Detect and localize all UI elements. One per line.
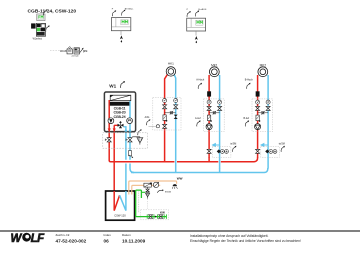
- WOLF logo: [11, 233, 46, 245]
- pipe tank loading flow red: [113, 125, 115, 211]
- svg-text:CGB-24: CGB-24: [114, 115, 126, 119]
- pipe boiler return blue: [130, 100, 134, 173]
- kw dot: [155, 216, 157, 218]
- dhw sensor: [157, 188, 164, 195]
- sensor 2 at module B: [195, 10, 199, 16]
- svg-text:Datum: Datum: [122, 233, 131, 237]
- HK1 consumer circle: [166, 67, 175, 76]
- svg-text:W1select: W1select: [33, 37, 43, 40]
- dotted drop from funnel: [147, 199, 149, 210]
- control module BM: [37, 14, 45, 21]
- heating circuit HK1 flow riser: [165, 74, 168, 161]
- svg-text:BT/eBus: BT/eBus: [125, 8, 134, 10]
- discharge valve chain: [146, 187, 150, 199]
- dirt trap funnel: [132, 137, 143, 145]
- sensor A/A1: [146, 119, 150, 125]
- restrictor on return: [129, 151, 134, 158]
- boiler 3-way valve: [118, 121, 124, 128]
- green stub to safety: [141, 191, 145, 193]
- svg-text:10.11.2009: 10.11.2009: [122, 238, 146, 243]
- HK1 pump dot: [156, 125, 159, 128]
- pipes inside boiler: [108, 100, 110, 132]
- svg-text:W1MF: W1MF: [60, 50, 68, 53]
- safety valve box: [144, 183, 152, 188]
- svg-text:MK1: MK1: [211, 63, 218, 67]
- svg-text:CGB-K20: CGB-K20: [113, 102, 127, 106]
- valve on return: [126, 138, 132, 142]
- heating flow main: [109, 160, 254, 162]
- pipe tank return blue: [125, 131, 127, 211]
- mixer module B box: [187, 18, 206, 31]
- MK2 return elbow: [264, 168, 268, 173]
- valve on flow: [105, 138, 111, 142]
- HK1 return riser: [174, 75, 176, 173]
- heat exchanger: [110, 95, 131, 100]
- svg-text:A-tief: A-tief: [195, 117, 201, 120]
- eBus sensor at module B: [187, 11, 191, 17]
- sensor 2 at module A: [121, 10, 125, 16]
- kw valve 1: [147, 214, 154, 218]
- heating return main: [131, 172, 264, 174]
- kw end tick: [165, 214, 167, 218]
- svg-text:Zeichn.-Nr.: Zeichn.-Nr.: [56, 233, 71, 237]
- kw fittings dashed box: [141, 210, 169, 220]
- sensor ts1: [232, 146, 236, 152]
- cold water group green: [136, 190, 167, 217]
- HK1 lower valve: [163, 124, 167, 128]
- MK1 flow tee: [208, 157, 210, 162]
- crossing gaps on flow main: [174, 160, 177, 163]
- svg-text:A-Hoch: A-Hoch: [196, 79, 205, 82]
- svg-text:B-eBUS: B-eBUS: [198, 9, 206, 11]
- sensor B-tief: [245, 120, 249, 126]
- svg-text:BT(W): BT(W): [165, 192, 171, 194]
- service group dashed box: [103, 133, 148, 148]
- svg-text:WW: WW: [177, 177, 183, 181]
- wire below module A: [120, 31, 122, 35]
- circulation pump: [153, 182, 159, 188]
- HK1 valve return: [174, 105, 178, 109]
- return sensor: [138, 129, 142, 135]
- boiler type list: [110, 102, 130, 119]
- tank coil blue: [120, 191, 126, 211]
- heating circuit MK1: [204, 67, 231, 169]
- svg-text:MK2: MK2: [260, 63, 267, 67]
- svg-text:LF: LF: [31, 233, 46, 245]
- svg-text:47-52-020-002: 47-52-020-002: [56, 238, 87, 243]
- HK1 bypass line: [165, 112, 176, 114]
- arrow to P=: [80, 49, 83, 53]
- flow arrows red down: [108, 128, 111, 132]
- arrow mark B: [195, 36, 198, 40]
- svg-text:P=: P=: [83, 49, 87, 53]
- boiler pump: [108, 118, 114, 124]
- svg-text:Einschlägige Regeln der Techni: Einschlägige Regeln der Technik und örtl…: [190, 239, 301, 243]
- sensor ts2: [281, 146, 285, 152]
- svg-text:ts/SM: ts/SM: [230, 143, 236, 146]
- svg-text:HK1: HK1: [168, 61, 174, 65]
- svg-text:ts/SM: ts/SM: [279, 143, 285, 146]
- dashed link: [50, 50, 59, 52]
- MK1 return tee: [219, 168, 221, 173]
- HK1 dashed box: [153, 97, 181, 130]
- svg-text:KW: KW: [160, 210, 165, 214]
- radio outdoor sensor icon: [67, 46, 72, 54]
- pipe boiler flow red left: [108, 100, 110, 161]
- dotted riser: [138, 192, 140, 214]
- HK1 bypass valve: [170, 112, 173, 114]
- svg-text:CGB-11-24, CSW-120: CGB-11-24, CSW-120: [28, 8, 77, 14]
- boiler fan: [127, 118, 133, 124]
- boiler W1 body: [104, 92, 135, 132]
- svg-text:B-Hoch: B-Hoch: [245, 79, 254, 82]
- HK1 valve flow: [163, 105, 167, 109]
- eBus sensor at module A: [112, 10, 116, 16]
- kw valve 2: [157, 214, 164, 218]
- sensor A-tief: [197, 120, 201, 126]
- svg-text:Installationsprinzip ohne Ansp: Installationsprinzip ohne Anspruch auf V…: [190, 234, 269, 238]
- return arrows blue up: [124, 128, 127, 132]
- svg-text:Index: Index: [104, 233, 112, 237]
- wire below module B: [195, 31, 197, 36]
- MK2 flow elbow: [254, 157, 258, 162]
- tank coil red: [114, 191, 119, 211]
- svg-text:06: 06: [104, 238, 110, 243]
- arrow mark A: [120, 35, 123, 39]
- svg-text:W: W: [11, 233, 23, 245]
- svg-text:B-tief: B-tief: [244, 117, 250, 120]
- sensor B-Hoch: [247, 83, 251, 89]
- WW tap: [172, 184, 177, 189]
- svg-text:A/A1: A/A1: [145, 116, 151, 119]
- sensor A-Hoch: [198, 83, 202, 89]
- svg-text:zentrale: zentrale: [72, 55, 80, 58]
- sensor at BM: [43, 9, 47, 15]
- tank CSW-120: [106, 191, 135, 220]
- svg-text:W1: W1: [109, 84, 116, 89]
- circulation pipe: [132, 185, 160, 194]
- controller rail unit: [31, 23, 45, 36]
- outdoor sensor at boiler: [120, 81, 125, 88]
- HK1 pointer line: [149, 125, 157, 127]
- radio receiver icon: [74, 48, 80, 54]
- HK1 regulating valve: [163, 115, 166, 121]
- heating circuit MK2: [252, 67, 279, 169]
- footer rule: [0, 230, 360, 232]
- svg-text:CSW-120: CSW-120: [114, 213, 126, 217]
- HK1 thermometer flow: [163, 98, 167, 102]
- HK1 check valve return: [174, 115, 178, 119]
- HK1 thermometer return: [174, 98, 178, 102]
- warm water pipe: [129, 181, 177, 195]
- sensor at controller: [46, 25, 50, 31]
- mixer module A box: [111, 18, 130, 31]
